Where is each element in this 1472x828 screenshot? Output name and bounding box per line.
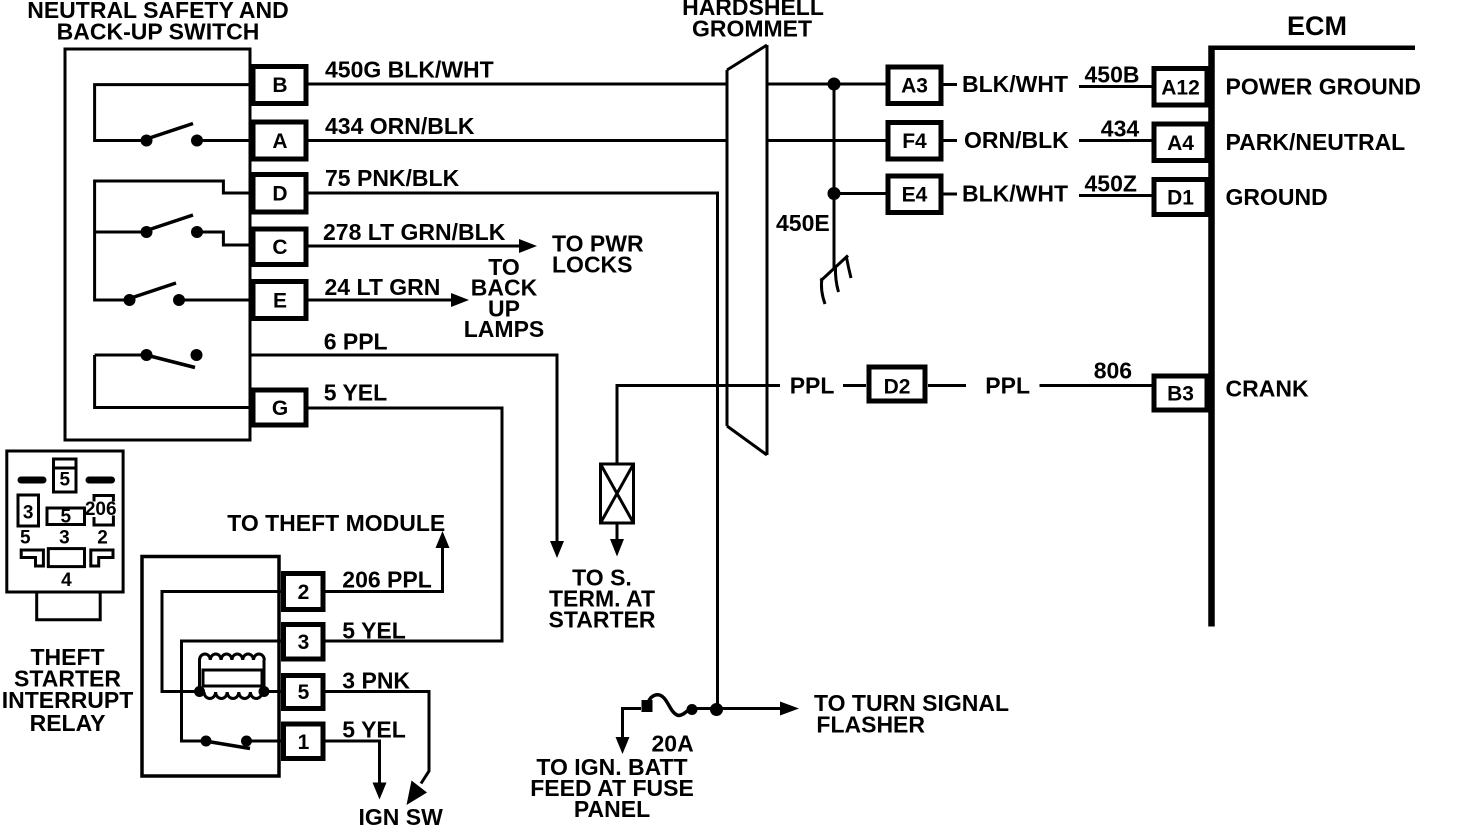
svg-text:LOCKS: LOCKS <box>552 251 633 277</box>
svg-text:GROMMET: GROMMET <box>692 16 812 42</box>
svg-text:PPL: PPL <box>790 373 835 399</box>
svg-text:450Z: 450Z <box>1085 171 1137 197</box>
svg-text:ECM: ECM <box>1287 11 1347 41</box>
svg-text:BLK/WHT: BLK/WHT <box>962 71 1068 97</box>
svg-text:206: 206 <box>85 499 117 520</box>
svg-text:D2: D2 <box>884 376 911 399</box>
svg-text:B: B <box>272 74 287 97</box>
svg-text:24 LT GRN: 24 LT GRN <box>325 274 441 300</box>
svg-text:206 PPL: 206 PPL <box>342 567 432 593</box>
svg-text:A: A <box>272 130 287 153</box>
svg-text:2: 2 <box>298 581 310 604</box>
svg-text:E4: E4 <box>902 184 928 207</box>
svg-text:4: 4 <box>61 570 72 591</box>
svg-text:3: 3 <box>298 631 310 654</box>
svg-text:5: 5 <box>61 507 72 528</box>
svg-text:D1: D1 <box>1167 187 1194 210</box>
svg-text:CRANK: CRANK <box>1226 376 1309 402</box>
svg-text:ORN/BLK: ORN/BLK <box>964 127 1069 153</box>
svg-text:D: D <box>272 183 287 206</box>
svg-text:5: 5 <box>60 470 71 491</box>
svg-text:PANEL: PANEL <box>574 796 650 822</box>
svg-text:B3: B3 <box>1167 383 1194 406</box>
svg-text:BLK/WHT: BLK/WHT <box>962 181 1068 207</box>
svg-text:5 YEL: 5 YEL <box>324 380 388 406</box>
svg-text:3 PNK: 3 PNK <box>342 668 410 694</box>
svg-text:1: 1 <box>298 731 310 754</box>
svg-text:450G BLK/WHT: 450G BLK/WHT <box>325 57 494 83</box>
svg-text:450B: 450B <box>1085 62 1140 88</box>
svg-text:806: 806 <box>1094 358 1132 384</box>
svg-text:IGN SW: IGN SW <box>359 804 444 828</box>
svg-text:20A: 20A <box>652 731 694 757</box>
svg-text:5: 5 <box>20 528 31 549</box>
svg-text:C: C <box>272 236 287 259</box>
svg-text:FLASHER: FLASHER <box>816 712 925 738</box>
svg-text:75 PNK/BLK: 75 PNK/BLK <box>325 165 460 191</box>
svg-text:A4: A4 <box>1167 132 1194 155</box>
svg-text:5: 5 <box>298 681 310 704</box>
svg-text:6 PPL: 6 PPL <box>324 329 388 355</box>
svg-text:3: 3 <box>59 528 70 549</box>
svg-text:BACK-UP SWITCH: BACK-UP SWITCH <box>57 19 260 45</box>
svg-text:3: 3 <box>23 503 34 524</box>
svg-text:A3: A3 <box>901 75 928 98</box>
svg-text:2: 2 <box>97 528 108 549</box>
svg-text:5 YEL: 5 YEL <box>342 618 406 644</box>
svg-text:278 LT GRN/BLK: 278 LT GRN/BLK <box>323 219 506 245</box>
svg-text:G: G <box>272 397 288 420</box>
svg-text:434 ORN/BLK: 434 ORN/BLK <box>325 113 475 139</box>
svg-text:5 YEL: 5 YEL <box>342 717 406 743</box>
svg-text:450E: 450E <box>776 210 830 236</box>
svg-text:LAMPS: LAMPS <box>464 316 545 342</box>
svg-text:TO THEFT MODULE: TO THEFT MODULE <box>227 510 445 536</box>
svg-text:PPL: PPL <box>985 373 1030 399</box>
svg-text:434: 434 <box>1101 116 1140 142</box>
svg-text:RELAY: RELAY <box>30 710 106 736</box>
svg-text:STARTER: STARTER <box>549 607 656 633</box>
svg-text:PARK/NEUTRAL: PARK/NEUTRAL <box>1226 129 1406 155</box>
svg-text:GROUND: GROUND <box>1226 184 1328 210</box>
svg-text:A12: A12 <box>1161 77 1200 100</box>
svg-text:POWER GROUND: POWER GROUND <box>1226 74 1422 100</box>
svg-text:E: E <box>273 290 287 313</box>
svg-text:F4: F4 <box>902 130 927 153</box>
